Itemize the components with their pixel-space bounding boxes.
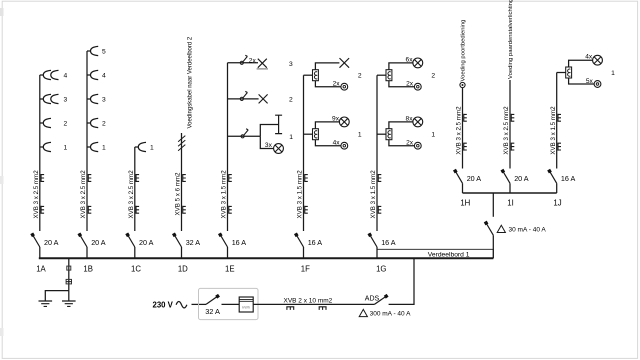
teleruptor relay (313, 70, 319, 81)
light point 2 (259, 94, 268, 103)
wire 1C outlet 1 (135, 146, 139, 148)
wire feed left (192, 303, 207, 305)
conductor marks 1G (378, 174, 381, 182)
svg-text:XVB 3 x 2.5 mm2: XVB 3 x 2.5 mm2 (33, 170, 40, 219)
svg-text:8x: 8x (406, 115, 414, 122)
svg-text:4x: 4x (333, 140, 341, 147)
conductor marks 1H (464, 114, 467, 122)
conductor marks 1A (41, 174, 44, 182)
main busbar Verdeelbord 1 (39, 257, 494, 259)
conductor marks 1J (558, 114, 561, 122)
svg-text:1D: 1D (178, 265, 188, 274)
svg-text:1B: 1B (83, 265, 93, 274)
conductor marks 1F (305, 174, 308, 182)
Verdeelbord 1 label box (377, 249, 493, 258)
svg-text:XVB 3 x 1.5 mm2: XVB 3 x 1.5 mm2 (550, 106, 557, 155)
svg-text:1: 1 (150, 144, 154, 151)
svg-text:32 A: 32 A (186, 238, 201, 247)
svg-text:1: 1 (358, 132, 362, 139)
wire 1D breaker to bus (181, 247, 183, 258)
ground electrode 1 (39, 301, 53, 306)
wire to relay (557, 72, 566, 74)
svg-text:1F: 1F (301, 265, 310, 274)
svg-text:Voedingskabel naar Verdeelbord: Voedingskabel naar Verdeelbord 2 (188, 36, 194, 128)
circuit 1E cable (227, 63, 229, 231)
wire ADS to riser (389, 258, 414, 304)
circuit 1I breaker 20 A (503, 171, 510, 183)
wire 1B outlet 5 (87, 50, 91, 52)
svg-text:1C: 1C (131, 265, 141, 274)
svg-text:1J: 1J (553, 198, 561, 207)
lamp point 3x (274, 144, 284, 154)
connection point gate supply (460, 82, 465, 87)
wire 1E circuit 3 (228, 62, 259, 64)
wire to relay (304, 133, 313, 135)
wire relay to lamp (389, 63, 413, 70)
warning triangle 30 mA (497, 225, 505, 232)
wire 1B breaker to bus (86, 247, 88, 258)
svg-text:16 A: 16 A (232, 238, 247, 247)
kWh meter M1 (239, 297, 253, 312)
wire to relay (377, 74, 386, 76)
wire 1I breaker to bus (509, 183, 511, 193)
wire relay to spots (315, 140, 341, 146)
svg-text:2x: 2x (333, 81, 341, 88)
svg-text:6x: 6x (406, 56, 414, 63)
wire relay to spots (389, 81, 415, 87)
wire 1J breaker to bus (556, 183, 558, 193)
wire 1H breaker to bus (462, 183, 464, 193)
circuit 1B cable (86, 51, 88, 231)
circuit 1H cable (462, 88, 464, 169)
wire 1G breaker to bus (376, 247, 378, 258)
svg-text:1: 1 (289, 134, 293, 141)
svg-text:XVB 3 x 1.5 mm2: XVB 3 x 1.5 mm2 (297, 170, 304, 219)
wire relay to lamp (389, 122, 413, 129)
svg-text:9x: 9x (332, 115, 340, 122)
svg-text:2x: 2x (406, 140, 414, 147)
wire 1E circuit 1 (228, 135, 261, 137)
svg-text:XVB 3 x 2.5 mm2: XVB 3 x 2.5 mm2 (128, 170, 135, 219)
wire 1E breaker to bus (227, 247, 229, 258)
wire 1A outlet 3 (40, 98, 44, 100)
light point (340, 58, 350, 68)
svg-text:Verdeelbord 1: Verdeelbord 1 (428, 252, 470, 259)
teleruptor relay (386, 129, 392, 140)
teleruptor relay (566, 67, 572, 78)
differential 30 mA riser (492, 235, 494, 258)
wire to relay (377, 133, 386, 135)
conductor marks 1C (136, 174, 139, 182)
svg-text:4: 4 (102, 72, 106, 79)
svg-text:16 A: 16 A (381, 238, 396, 247)
conductor marks 1B (88, 174, 91, 182)
socket outlet 1B-5 (91, 46, 99, 55)
circuit 1H breaker 20 A (455, 171, 462, 183)
svg-text:2: 2 (358, 73, 362, 80)
svg-text:XVB 5 x 6 mm2: XVB 5 x 6 mm2 (175, 172, 182, 216)
svg-text:2: 2 (64, 120, 68, 127)
svg-text:1I: 1I (507, 198, 514, 207)
socket outlet 1B-2 (91, 118, 99, 127)
svg-text:5: 5 (102, 48, 106, 55)
teleruptor relay (313, 129, 319, 140)
wire relay to spots (315, 81, 341, 87)
ground electrode 2 (62, 301, 76, 306)
svg-text:20 A: 20 A (139, 238, 154, 247)
circuit 1D cable (181, 133, 183, 231)
svg-text:1H: 1H (460, 198, 470, 207)
warning triangle 300 mA (359, 309, 367, 316)
svg-text:1: 1 (431, 132, 435, 139)
wire 1C breaker to bus (134, 247, 136, 258)
svg-text:3: 3 (289, 61, 293, 68)
wire relay to spots (569, 78, 595, 84)
svg-text:300 mA - 40 A: 300 mA - 40 A (370, 310, 411, 317)
svg-text:4: 4 (64, 72, 68, 79)
lamp point 9x (339, 117, 349, 127)
conductor slashes feeder (178, 136, 185, 151)
wire switch to meter (222, 303, 240, 305)
conductor marks 1E (229, 174, 232, 182)
spot light 2x (414, 142, 421, 149)
svg-text:Voeding poortbediening: Voeding poortbediening (461, 20, 467, 82)
svg-text:2x: 2x (249, 58, 257, 65)
circuit 1A breaker 20 A (33, 235, 40, 247)
svg-text:XVB 3 x 2.5 mm2: XVB 3 x 2.5 mm2 (456, 106, 463, 155)
wire 1A outlet 2 (40, 122, 44, 124)
wire 1A breaker to bus (39, 247, 41, 258)
svg-text:3: 3 (102, 96, 106, 103)
wire meter to ADS (253, 303, 374, 305)
socket outlet 1A-1 (43, 142, 51, 151)
conductor marks feed cable (286, 307, 294, 310)
teleruptor relay (386, 70, 392, 81)
svg-text:XVB 3 x 1.5 mm2: XVB 3 x 1.5 mm2 (370, 170, 377, 219)
svg-text:1A: 1A (36, 265, 46, 274)
wire 1B outlet 1 (87, 146, 91, 148)
circuit 1G cable (376, 75, 378, 231)
svg-text:2x: 2x (406, 81, 414, 88)
lamp point 6x (413, 58, 423, 68)
svg-text:230 V: 230 V (153, 300, 174, 309)
svg-text:XVB 2 x 10 mm2: XVB 2 x 10 mm2 (284, 297, 333, 304)
circuit 1E breaker 16 A (220, 235, 227, 247)
circuit 1J cable (556, 73, 558, 169)
svg-text:2: 2 (431, 73, 435, 80)
svg-text:Voeding paardenstalverlichting: Voeding paardenstalverlichting (508, 0, 514, 79)
wire 1B outlet 4 (87, 74, 91, 76)
circuit 1C breaker 20 A (128, 235, 135, 247)
svg-text:kWh: kWh (242, 304, 250, 309)
wire to lamps (260, 136, 273, 148)
conductor marks 1I (511, 114, 514, 122)
wire to fluorescent (260, 125, 278, 137)
circuit 1B breaker 20 A (80, 235, 87, 247)
socket outlet 1B-1 (91, 142, 99, 151)
differential switch 30 mA (486, 223, 493, 235)
svg-text:3x: 3x (265, 142, 273, 149)
switch S3 (240, 61, 243, 64)
svg-text:5x: 5x (586, 78, 594, 85)
svg-text:16 A: 16 A (561, 174, 576, 183)
svg-text:1: 1 (64, 144, 68, 151)
svg-text:XVB 3 x 2.5 mm2: XVB 3 x 2.5 mm2 (80, 170, 87, 219)
svg-text:20 A: 20 A (467, 174, 482, 183)
wire relay to lamp (315, 122, 339, 129)
wire to relay (304, 74, 313, 76)
main switch 32 A (206, 296, 218, 304)
AC sine symbol (176, 302, 187, 308)
svg-text:32 A: 32 A (205, 307, 220, 316)
socket outlet 1B-4 (91, 70, 99, 79)
lamp point 4x (593, 55, 603, 65)
socket outlet 1B-3 (91, 94, 99, 103)
connector block (67, 266, 71, 270)
wire relay to lamp (315, 63, 339, 70)
fluorescent luminaire TL (275, 115, 282, 133)
svg-text:1: 1 (102, 144, 106, 151)
spot light 4x (341, 142, 348, 149)
switch S2 (240, 97, 243, 100)
svg-text:ADS: ADS (365, 295, 380, 302)
spot light 2x (414, 83, 421, 90)
svg-text:30 mA - 40 A: 30 mA - 40 A (509, 227, 547, 234)
binder marks left edge (0, 8, 4, 16)
circuit 1C cable (134, 147, 136, 231)
svg-text:1: 1 (611, 70, 615, 77)
socket outlet 1A-3 double (43, 94, 51, 103)
svg-text:20 A: 20 A (514, 174, 529, 183)
meter enclosure (199, 288, 259, 319)
circuit 1J breaker 16 A (550, 171, 557, 183)
circuit 1A cable (39, 75, 41, 231)
wire 1B outlet 2 (87, 122, 91, 124)
svg-text:XVB 3 x 1.5 mm2: XVB 3 x 1.5 mm2 (221, 170, 228, 219)
svg-text:20 A: 20 A (91, 238, 106, 247)
socket outlet 1A-2 (43, 118, 51, 127)
wire 1E circuit 2 (228, 98, 259, 100)
svg-text:16 A: 16 A (308, 238, 323, 247)
circuit 1F breaker 16 A (296, 235, 303, 247)
svg-text:1G: 1G (376, 265, 386, 274)
svg-text:XVB 3 x 2.5 mm2: XVB 3 x 2.5 mm2 (503, 106, 510, 155)
wire 1B outlet 3 (87, 98, 91, 100)
wire to second earth (45, 291, 69, 301)
circuit 1F cable (303, 75, 305, 231)
spot light 5x (594, 81, 601, 88)
socket outlet 1A-4 double (43, 70, 51, 79)
switch S1 (241, 135, 244, 138)
lamp point 8x (413, 117, 423, 127)
svg-text:3: 3 (64, 96, 68, 103)
wall light point 3 (258, 59, 267, 68)
circuit 1G breaker 16 A (370, 235, 377, 247)
conductor marks 1D (183, 174, 186, 182)
sub busbar (463, 192, 557, 194)
wire relay to lamp (569, 60, 593, 67)
socket outlet 1C-1 (138, 142, 146, 151)
svg-text:4x: 4x (585, 54, 593, 61)
circuit 1D breaker 32 A (174, 235, 181, 247)
circuit 1I cable (509, 80, 511, 169)
spot light 2x (341, 83, 348, 90)
wire 1A outlet 4 (40, 74, 44, 76)
wire 1A outlet 1 (40, 146, 44, 148)
wire relay to spots (389, 140, 415, 146)
measuring joint (66, 279, 71, 284)
svg-text:1E: 1E (225, 265, 235, 274)
wire 1F breaker to bus (303, 247, 305, 258)
svg-text:20 A: 20 A (44, 238, 59, 247)
earth conductor from bus (68, 258, 70, 290)
svg-text:2: 2 (102, 120, 106, 127)
svg-text:2: 2 (289, 97, 293, 104)
